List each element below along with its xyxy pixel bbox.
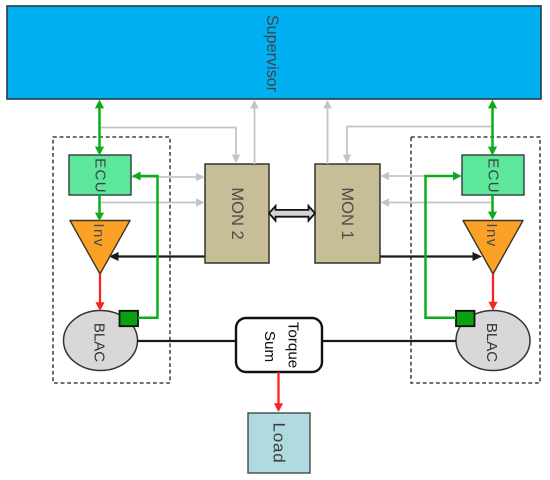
block BLAC right (motor): [456, 311, 530, 371]
wire gray supervisor branch to MON2 top: [100, 128, 241, 164]
wire black MON1 to Inv right (behind MON1 box): [340, 252, 482, 261]
wire gray supervisor branch to MON1 top: [343, 127, 493, 164]
wire green ECU-Inv left: [95, 195, 104, 221]
wire red Inv-BLAC left: [95, 274, 104, 311]
wire green Supervisor-ECU right (double arrow): [488, 100, 497, 156]
block Load: [248, 413, 310, 473]
wire gray ECU left to MON2: [131, 173, 205, 182]
block MON 1: [315, 164, 380, 263]
svg-text:MON 1: MON 1: [338, 187, 356, 239]
wire gray Inv-line left to MON2: [100, 198, 205, 207]
sensor green square right: [456, 311, 475, 326]
wire gray MON2 up to Supervisor: [250, 100, 259, 164]
wire gray MON1 up to Supervisor: [323, 100, 332, 164]
svg-text:Load: Load: [270, 422, 289, 463]
wire green ECU-Inv right: [488, 195, 497, 220]
block Supervisor: [7, 6, 541, 99]
wire red Torque Sum to Load: [274, 372, 283, 412]
wire black BLAC right to Torque Sum: [322, 340, 456, 342]
wire gray ECU right to MON1: [381, 172, 463, 181]
svg-text:Inv: Inv: [90, 223, 107, 247]
block MON 2: [205, 164, 269, 263]
wire green Supervisor-ECU left (double arrow): [95, 100, 104, 156]
wire black BLAC left to Torque Sum: [137, 340, 236, 342]
svg-text:MON 2: MON 2: [228, 187, 246, 239]
wire green feedback BLAC sensor to ECU left: [132, 172, 158, 318]
svg-text:Inv: Inv: [483, 223, 500, 247]
svg-text:BLAC: BLAC: [91, 323, 108, 362]
svg-text:Supervisor: Supervisor: [263, 15, 281, 93]
wire green feedback BLAC sensor to ECU right: [426, 172, 462, 318]
svg-text:ECU: ECU: [92, 158, 109, 194]
svg-text:Sum: Sum: [261, 331, 278, 362]
block Inv left (triangle): [70, 221, 130, 275]
block Inv right (triangle): [463, 221, 523, 275]
block ECU left: [69, 155, 131, 195]
wire gray Inv-line right to MON1: [381, 198, 494, 207]
svg-text:Torque: Torque: [285, 322, 302, 368]
block Torque Sum: [236, 318, 322, 372]
svg-text:BLAC: BLAC: [483, 323, 500, 362]
dashed enclosure left lane: [53, 137, 170, 383]
wire black MON2 to Inv left (behind MON2 box): [109, 252, 245, 261]
svg-text:ECU: ECU: [485, 158, 502, 194]
dashed enclosure right lane: [411, 137, 540, 383]
sensor green square left: [120, 311, 139, 326]
block double arrow MON2-MON1: [269, 206, 315, 221]
block ECU right: [462, 155, 524, 195]
wire red Inv-BLAC right: [488, 274, 497, 311]
block BLAC left (motor): [64, 311, 138, 371]
